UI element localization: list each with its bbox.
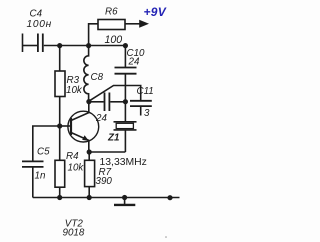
capacitor C11 bbox=[130, 101, 152, 106]
transistor emitter lead bbox=[71, 133, 89, 153]
node dot6 collector/coil junction bbox=[86, 99, 91, 104]
node dot3 rail/C10 junction bbox=[123, 43, 128, 48]
wire Z1 to dot4 bbox=[124, 102, 126, 122]
wire C10 to dot4 bbox=[124, 74, 126, 102]
resistor R4 bbox=[55, 160, 65, 187]
node dot2 rail/R6/coil junction bbox=[86, 43, 91, 48]
svg-text:Z1: Z1 bbox=[107, 132, 119, 143]
svg-text:100: 100 bbox=[105, 34, 123, 46]
label C10 bbox=[127, 48, 146, 59]
+9V arrow bbox=[139, 20, 149, 28]
node dot5 base junction bbox=[57, 123, 62, 128]
capacitor 24 bbox=[105, 93, 110, 112]
wire C10 top stub bbox=[124, 46, 126, 68]
wire diagonal collector to C11 bbox=[90, 86, 141, 101]
wire base bbox=[60, 125, 71, 127]
svg-text:C8: C8 bbox=[91, 72, 104, 83]
value 13,33MHz bbox=[100, 157, 147, 168]
value 10k R4 bbox=[68, 162, 85, 173]
inductor coil bbox=[84, 46, 89, 102]
value 24 C10 bbox=[128, 57, 140, 68]
svg-text:1n: 1n bbox=[35, 171, 46, 182]
emitter arrowhead bbox=[82, 135, 89, 141]
capacitor C10 bbox=[115, 68, 137, 74]
svg-text:R4: R4 bbox=[66, 151, 79, 162]
label VT2 bbox=[65, 219, 84, 230]
value 10k R3 bbox=[66, 85, 83, 96]
label Z1 bbox=[107, 132, 119, 143]
svg-text:+9V: +9V bbox=[144, 5, 167, 19]
svg-text:100н: 100н bbox=[27, 19, 52, 30]
label R6 bbox=[105, 7, 118, 18]
node dot R7/rail bbox=[87, 195, 92, 200]
wire cap 24 to dot4 bbox=[110, 101, 125, 103]
svg-text:C5: C5 bbox=[37, 146, 50, 157]
svg-text:10k: 10k bbox=[66, 85, 83, 96]
wire C5 to bottom rail bbox=[32, 168, 34, 198]
label C5 bbox=[37, 146, 50, 157]
svg-text:R3: R3 bbox=[67, 75, 80, 86]
node dot7 emitter junction bbox=[87, 149, 92, 154]
node dot R4/rail bbox=[57, 195, 62, 200]
value 24 coupling cap bbox=[95, 113, 107, 124]
transistor VT2 circle bbox=[68, 111, 99, 142]
wire R4 top bbox=[59, 126, 61, 160]
wire R6 left stub bbox=[89, 24, 98, 46]
node dot4 bbox=[123, 99, 128, 104]
svg-text:10k: 10k bbox=[68, 162, 85, 173]
speck artifact bbox=[165, 236, 167, 238]
input terminal bar bbox=[22, 34, 24, 53]
value 1n C5 bbox=[35, 171, 46, 182]
label +9V bbox=[144, 5, 167, 19]
wire R3 drop bbox=[59, 46, 61, 72]
svg-text:390: 390 bbox=[96, 176, 113, 187]
wire R7 top bbox=[88, 152, 90, 160]
svg-text:C4: C4 bbox=[30, 9, 43, 20]
svg-text:24: 24 bbox=[128, 57, 140, 68]
transistor base bar bbox=[70, 118, 72, 135]
label C4 bbox=[30, 9, 43, 20]
node dot1 C4/R3 junction bbox=[57, 43, 62, 48]
value 9018 bbox=[63, 228, 85, 239]
svg-text:C11: C11 bbox=[137, 86, 154, 97]
label R7 bbox=[99, 167, 112, 178]
svg-text:R6: R6 bbox=[105, 7, 118, 18]
wire C5 branch bbox=[33, 126, 60, 161]
label C8 bbox=[91, 72, 104, 83]
svg-text:9018: 9018 bbox=[63, 228, 85, 239]
resistor R3 bbox=[55, 71, 65, 97]
wire bottom rail bbox=[33, 197, 180, 199]
resistor R6 bbox=[98, 20, 125, 30]
capacitor C5 bbox=[22, 161, 44, 167]
svg-text:24: 24 bbox=[95, 113, 107, 124]
wire R6 to arrow bbox=[125, 23, 140, 25]
svg-text:3: 3 bbox=[144, 108, 150, 119]
label R4 bbox=[66, 151, 79, 162]
value 390 R7 bbox=[96, 176, 113, 187]
wire R3 to base node bbox=[59, 97, 61, 127]
node dot ground/rail bbox=[122, 195, 127, 200]
node dot rail end bbox=[167, 195, 172, 200]
crystal Z1 bbox=[114, 122, 137, 130]
label R3 bbox=[67, 75, 80, 86]
wire C11 output stub bbox=[140, 106, 142, 115]
wire row to cap 24 bbox=[89, 101, 104, 103]
wire top rail bbox=[44, 45, 126, 47]
label C11 bbox=[137, 86, 154, 97]
wire R4 bottom bbox=[59, 187, 61, 197]
ground bbox=[114, 198, 135, 205]
wire input lead to C4 bbox=[23, 45, 38, 47]
value 100н bbox=[27, 19, 52, 30]
resistor R7 bbox=[85, 160, 95, 186]
value 3 C11 bbox=[144, 108, 150, 119]
wire emitter row bbox=[89, 151, 125, 153]
wire R7 bottom bbox=[88, 187, 90, 198]
capacitor C4 bbox=[38, 34, 43, 53]
transistor collector lead bbox=[71, 102, 89, 121]
value 100 bbox=[105, 34, 123, 46]
wire Z1 bottom riser bbox=[124, 130, 126, 152]
